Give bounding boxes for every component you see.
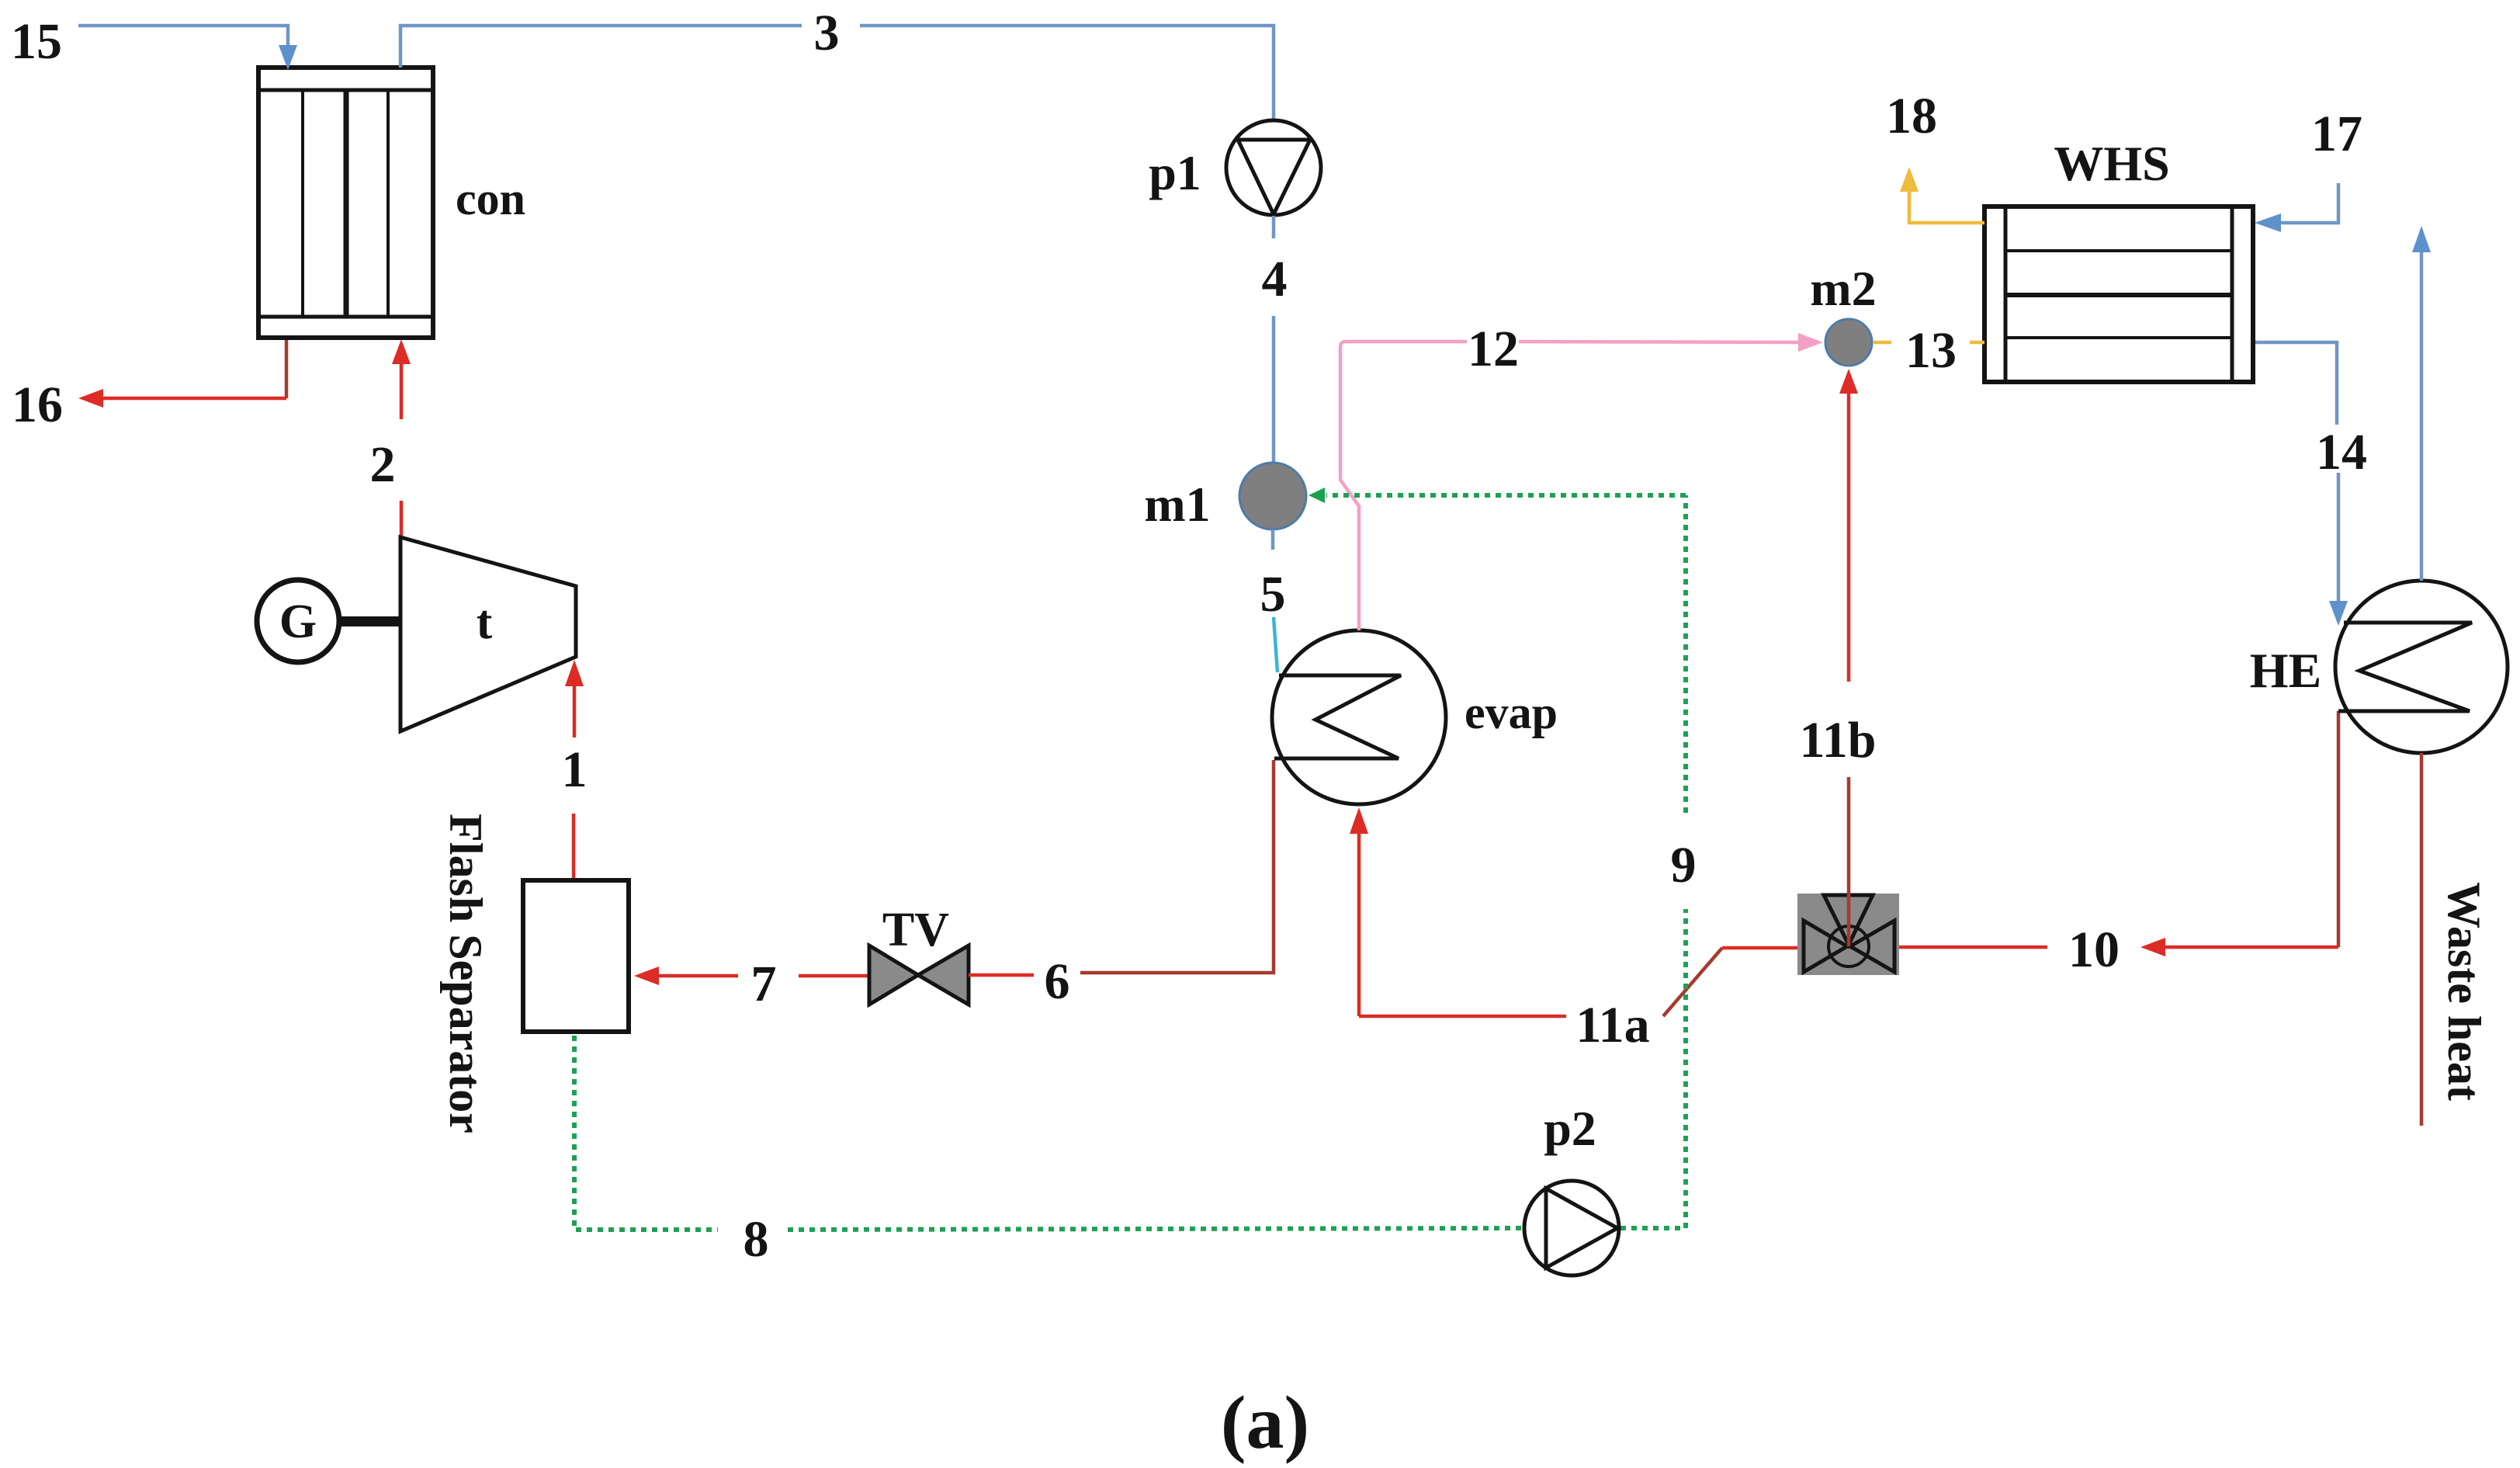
mixer m1: [1239, 463, 1306, 529]
wire stream 3 (blue con to p1): [400, 26, 1274, 120]
wire stream 13 (m2 to WHS yellow): [1874, 341, 1984, 345]
svg-text:G: G: [279, 595, 317, 648]
svg-text:4: 4: [1262, 251, 1288, 307]
wire stream 11a (valve to evap): [1350, 807, 1797, 1016]
wire stream 17 (into WHS): [2255, 183, 2338, 232]
pump p2: [1524, 1181, 1619, 1275]
svg-text:18: 18: [1886, 88, 1937, 144]
svg-text:Waste heat: Waste heat: [2439, 882, 2490, 1101]
svg-text:con: con: [456, 173, 525, 224]
pump p1: [1226, 120, 1321, 215]
svg-text:6: 6: [1045, 953, 1070, 1010]
wire stream 5 (m1 to evap): [1273, 529, 1277, 672]
flash separator vessel: [523, 880, 629, 1032]
wire stream 18 (yellow out of WHS): [1900, 167, 1984, 223]
svg-text:8: 8: [744, 1211, 769, 1268]
wire stream 16 (condensate out): [78, 340, 286, 408]
wire stream 6 (evap to TV): [969, 760, 1274, 975]
wire stream 8/9 (green dotted recirculation): [574, 495, 1686, 1230]
svg-text:9: 9: [1671, 837, 1697, 894]
svg-text:HE: HE: [2250, 643, 2321, 698]
svg-text:3: 3: [814, 5, 840, 61]
svg-text:m2: m2: [1810, 261, 1876, 316]
svg-text:WHS: WHS: [2054, 136, 2169, 191]
wire HE water outlet (blue up arrow): [2412, 226, 2431, 581]
svg-text:m1: m1: [1144, 477, 1210, 532]
three-way valve: [1797, 894, 1899, 975]
svg-text:t: t: [477, 596, 493, 649]
svg-text:10: 10: [2068, 921, 2120, 978]
waste heat source WHS: [1984, 206, 2253, 382]
svg-text:p2: p2: [1544, 1101, 1596, 1156]
svg-text:p1: p1: [1149, 145, 1201, 200]
svg-text:12: 12: [1468, 321, 1519, 377]
generator shaft: [339, 616, 400, 626]
svg-text:2: 2: [370, 436, 396, 493]
svg-text:16: 16: [12, 377, 63, 433]
heat exchanger HE: [2335, 581, 2508, 753]
wire stream 10 (HE to valve): [1899, 711, 2338, 956]
wire stream 11b (valve to m2): [1839, 369, 1858, 946]
generator G: [257, 580, 339, 662]
wire waste heat (red inlet): [2420, 753, 2424, 1126]
wire stream 4 (p1 to m1): [1272, 216, 1276, 463]
wire stream 2 (turbine to con): [392, 339, 411, 536]
wire stream 1 (flash sep to turbine): [565, 660, 584, 878]
svg-text:15: 15: [11, 13, 62, 70]
svg-text:Flash Separator: Flash Separator: [440, 814, 491, 1133]
green arrow into m1: [1309, 488, 1325, 503]
svg-text:evap: evap: [1465, 687, 1558, 738]
svg-text:TV: TV: [882, 904, 949, 956]
wire stream 7 (TV to flash sep): [634, 967, 868, 985]
wire stream 14 (WHS to HE): [2253, 342, 2348, 626]
svg-text:5: 5: [1260, 566, 1286, 623]
evaporator evap: [1272, 630, 1446, 804]
svg-text:11b: 11b: [1799, 712, 1876, 769]
svg-text:1: 1: [562, 741, 588, 798]
svg-text:11a: 11a: [1575, 997, 1649, 1053]
condenser con: [258, 68, 433, 338]
svg-text:17: 17: [2311, 106, 2362, 162]
turbine t: [400, 537, 576, 731]
throttle valve TV: [869, 946, 969, 1005]
svg-text:13: 13: [1905, 322, 1957, 379]
svg-text:(a): (a): [1221, 1381, 1309, 1465]
svg-text:7: 7: [751, 956, 777, 1012]
mixer m2: [1825, 319, 1872, 366]
wire stream 15 (blue into con): [78, 26, 297, 70]
wire stream 12 (pink evap to m2): [1340, 333, 1823, 630]
svg-text:14: 14: [2316, 424, 2367, 481]
